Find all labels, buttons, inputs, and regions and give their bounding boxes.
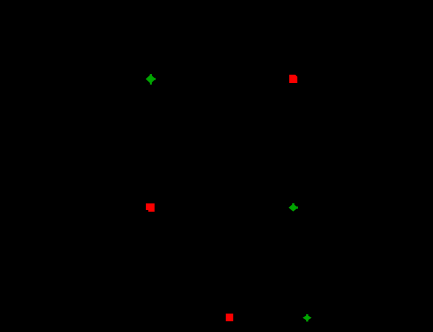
LED D1 (green, on) (146, 74, 156, 85)
LED D5 (red, on) (226, 314, 233, 322)
LED D4 (green, on) (289, 203, 298, 211)
LED D6 (green, on) (303, 314, 312, 321)
LED D2 (red, on) (289, 75, 297, 83)
LED D3 (red, on) (146, 203, 155, 211)
